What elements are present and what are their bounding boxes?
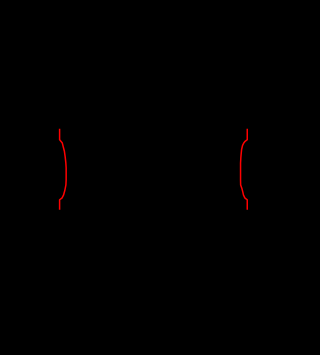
right red bracket (curved parenthesis with end ticks) bbox=[241, 129, 248, 210]
left red bracket (curved parenthesis with end ticks) bbox=[60, 129, 67, 210]
